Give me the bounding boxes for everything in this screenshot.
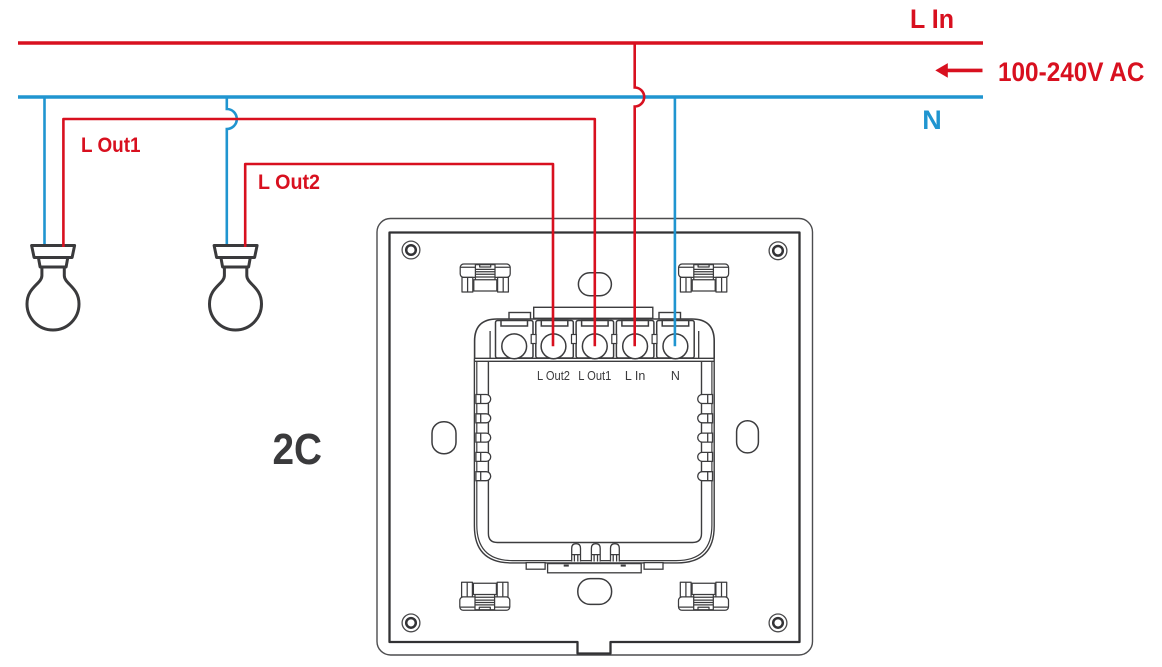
side bumps right: [698, 395, 713, 481]
module terminal row separator double line: [475, 358, 715, 361]
lamp 1: [27, 246, 79, 331]
tab feet marks: [564, 565, 569, 567]
module outer body: terminal block shoulders: [475, 319, 715, 359]
side bumps left: [476, 395, 491, 481]
oval hole right: [737, 421, 759, 453]
svg-text:L Out1: L Out1: [578, 369, 611, 383]
terminal cell 3 L Out1: [576, 321, 614, 359]
screw bottom-left: [402, 614, 420, 632]
switch plate outer frame: [377, 219, 813, 656]
module bottom big tab: [548, 564, 642, 573]
wire blue drop to bulb1: [43, 97, 46, 247]
wire red L In drop from main line to terminal with hop over blue: [635, 43, 645, 346]
claw bottom-right: [679, 582, 729, 610]
claw bottom-left: [460, 582, 510, 610]
oval hole left: [432, 422, 456, 454]
screw top-right: [769, 242, 787, 260]
module bottom small tab left: [526, 563, 545, 570]
svg-text:L Out1: L Out1: [81, 134, 141, 157]
lamp 2: [210, 246, 262, 331]
arrow 100-240V AC: [935, 63, 982, 78]
module back plate behind terminals: [534, 307, 653, 318]
wire blue N drop from main line to terminal: [674, 97, 677, 346]
oval hole bottom: [578, 579, 612, 605]
claw top-left: [460, 264, 510, 292]
svg-text:L In: L In: [625, 369, 645, 383]
terminal cell 4 L In: [616, 321, 654, 359]
svg-text:2C: 2C: [273, 426, 323, 474]
terminal cell 5 N: [657, 321, 695, 359]
wire N main horizontal blue line: [18, 95, 983, 99]
svg-text:L In: L In: [910, 4, 954, 34]
module inner cage: [488, 361, 701, 542]
module top tab right: [659, 313, 681, 320]
cell divider ticks: [531, 335, 657, 344]
module top tab left: [509, 313, 531, 320]
wire red L Out2 run: terminal up-left-down to bulb2: [245, 164, 553, 346]
wire L-In main horizontal red line: [18, 41, 983, 45]
wire red L Out1 run: terminal up-left-down to bulb1: [63, 119, 594, 346]
bottom prongs (dome pins): [572, 544, 620, 562]
block inner shoulder lines: [490, 331, 699, 358]
svg-text:100-240V AC: 100-240V AC: [998, 57, 1145, 87]
module lower body outer wall (double line): [474, 359, 714, 563]
wire blue drop to bulb2 with hop over red: [227, 97, 237, 247]
switch plate inner frame: [390, 233, 800, 654]
module bottom small tab right: [644, 563, 663, 570]
screw top-left: [402, 241, 420, 259]
terminal cell 1: [496, 321, 534, 359]
svg-text:L Out2: L Out2: [537, 369, 570, 383]
terminal cell 2 L Out2: [536, 321, 574, 359]
screw bottom-right: [769, 614, 787, 632]
svg-text:N: N: [922, 105, 942, 135]
svg-text:L Out2: L Out2: [258, 171, 320, 194]
claw top-right: [679, 264, 729, 292]
terminal labels: [537, 369, 680, 383]
oval hole top: [578, 273, 611, 296]
svg-text:N: N: [671, 369, 680, 383]
